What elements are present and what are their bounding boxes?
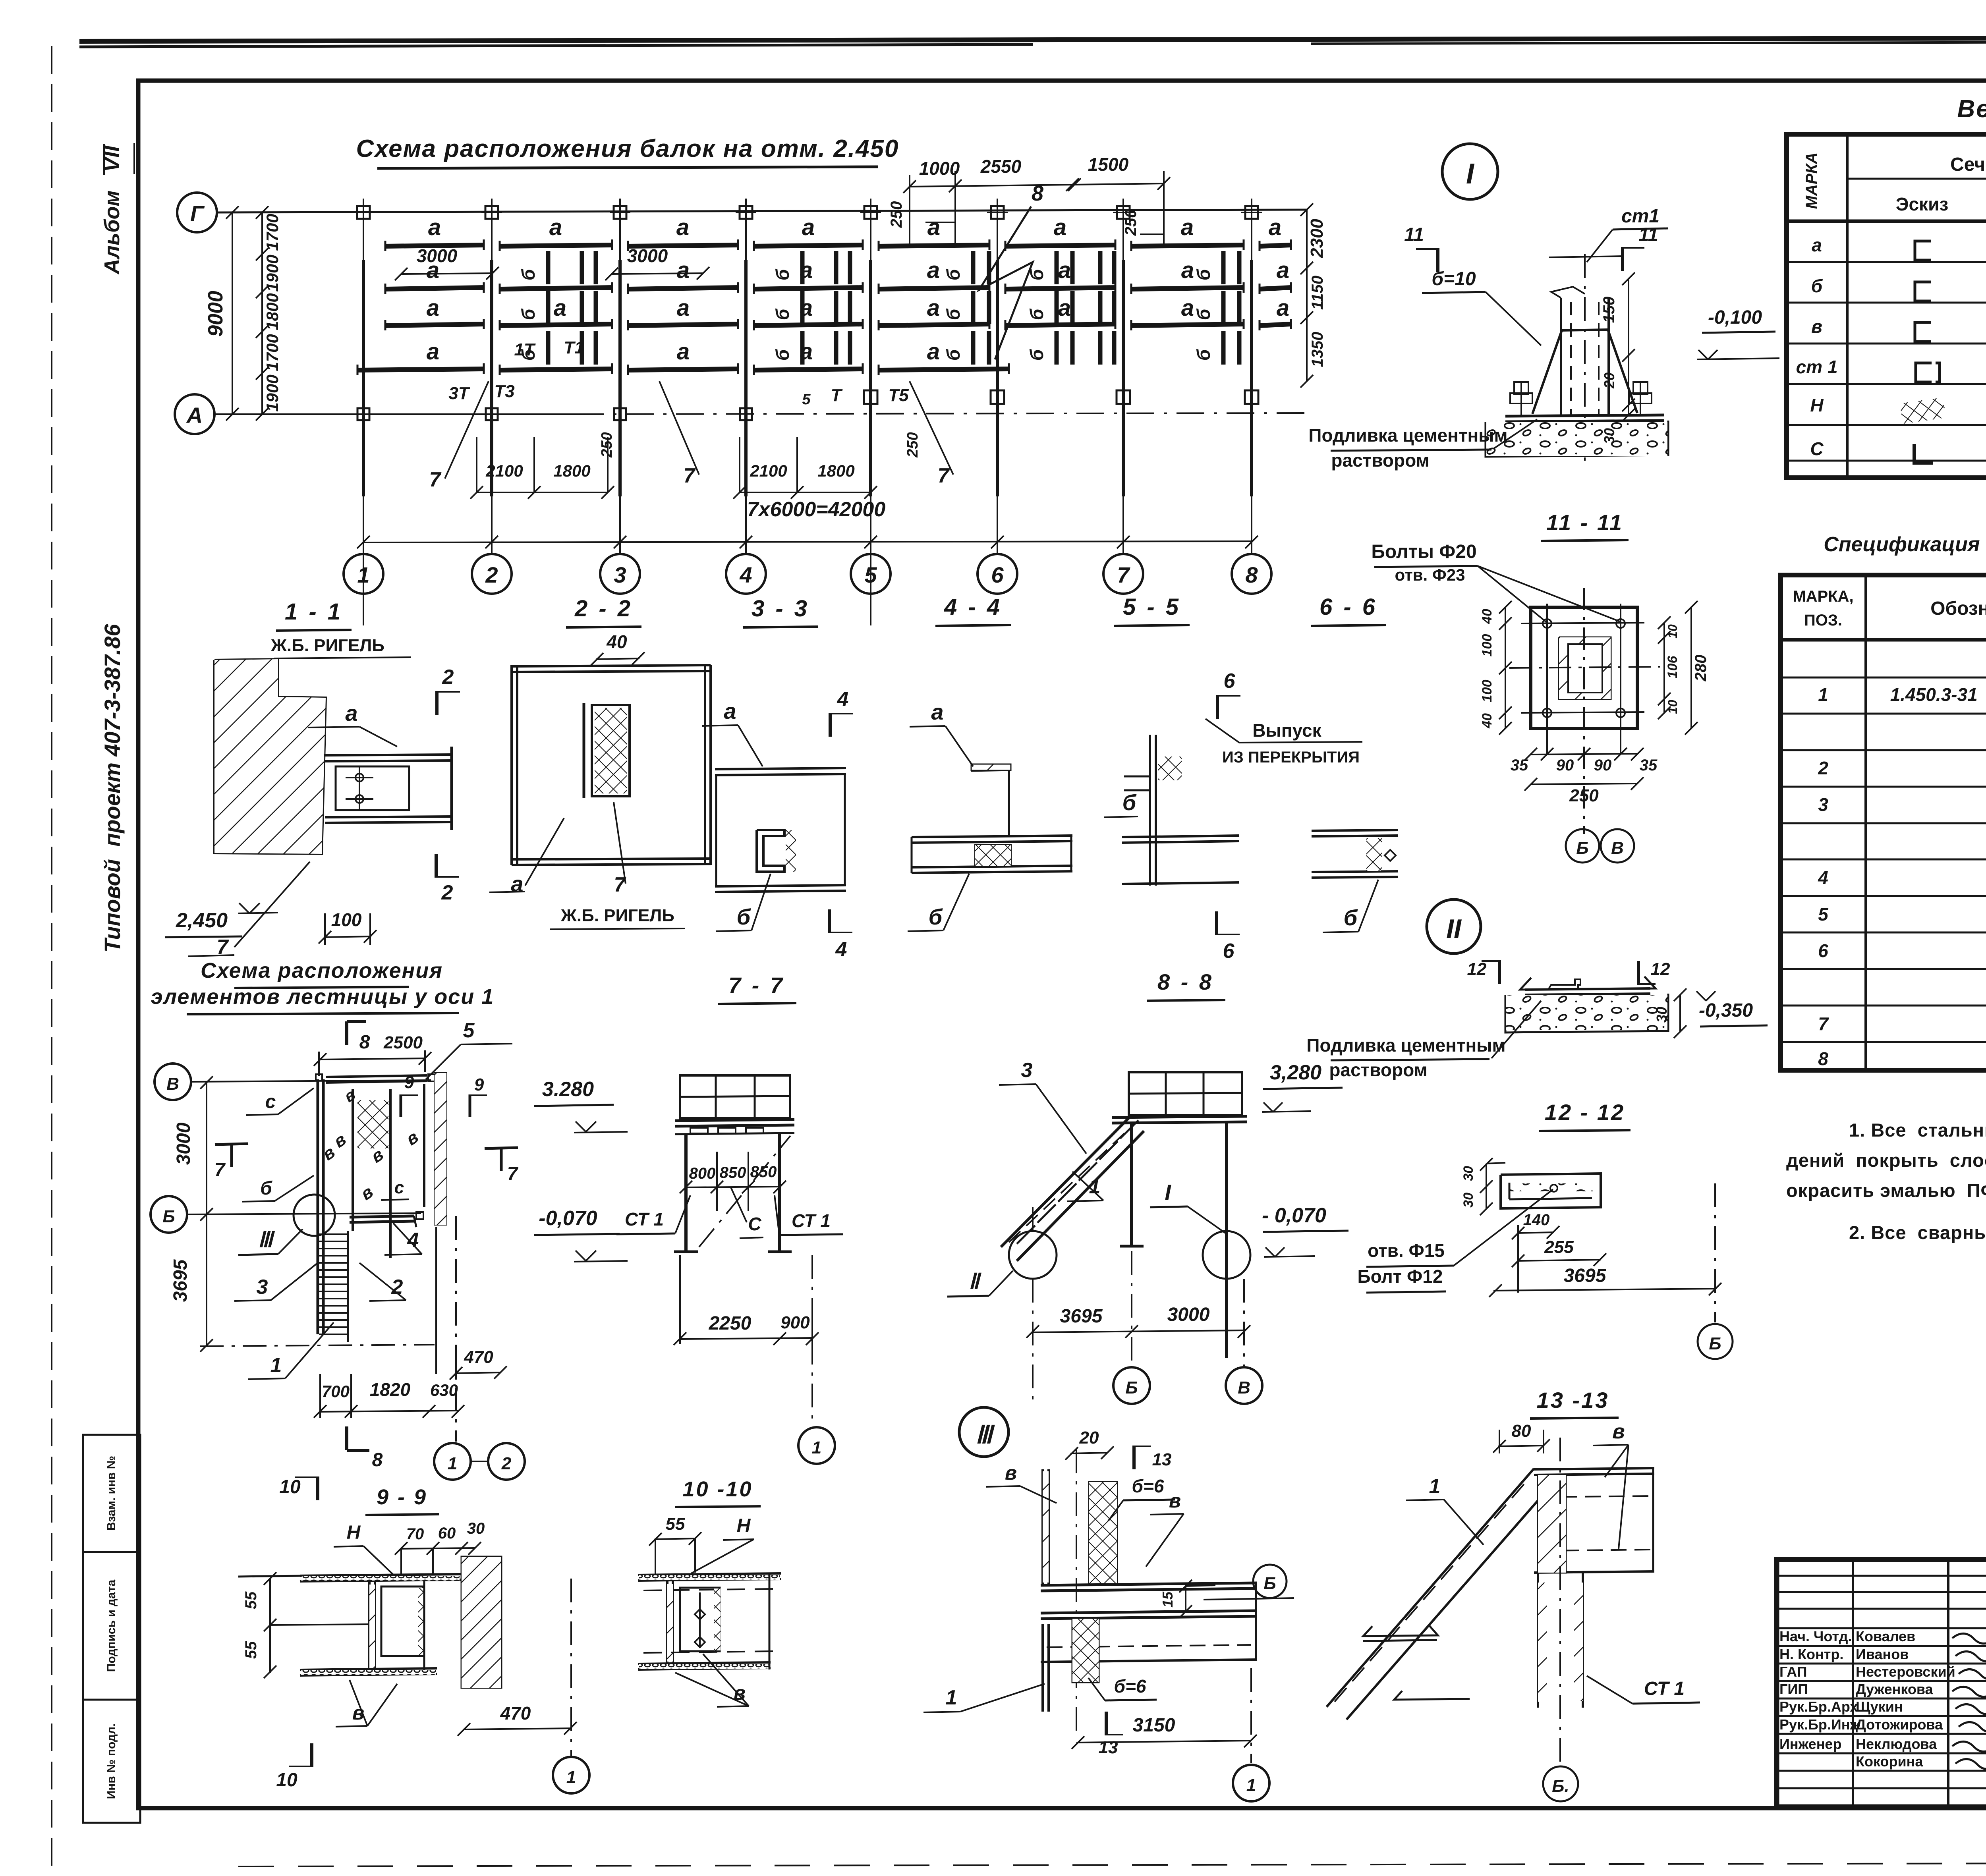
svg-text:Т1: Т1 <box>564 338 584 357</box>
svg-text:б=6: б=6 <box>1132 1476 1164 1496</box>
svg-text:-0,350: -0,350 <box>1699 1000 1753 1021</box>
svg-text:850: 850 <box>750 1163 777 1181</box>
stair bottom dims 700 1820 630 <box>320 1411 458 1412</box>
svg-text:2500: 2500 <box>383 1033 423 1052</box>
section 8-8 detail ref II <box>1009 1231 1057 1279</box>
detail 13-13 step angles <box>1363 1625 1438 1636</box>
svg-text:2: 2 <box>441 881 453 904</box>
svg-text:а: а <box>427 339 439 365</box>
svg-text:Н: Н <box>347 1522 361 1543</box>
svg-text:-0,070: -0,070 <box>539 1207 597 1230</box>
section 9-9 cut mark 10 top <box>316 1476 319 1500</box>
sheet outer border top (torn edge) <box>79 37 1986 41</box>
svg-text:2100: 2100 <box>750 461 787 480</box>
svg-text:1: 1 <box>1089 1175 1101 1198</box>
svg-text:40: 40 <box>606 631 627 652</box>
sheet outer border left <box>51 46 52 1866</box>
section 8-8 platform <box>1112 1116 1247 1117</box>
svg-text:а: а <box>802 214 815 240</box>
svg-text:13: 13 <box>1152 1450 1172 1469</box>
svg-text:а: а <box>1054 214 1066 240</box>
svg-text:б: б <box>1026 349 1047 361</box>
detail I anchor bolts <box>1510 393 1532 403</box>
svg-text:2: 2 <box>442 666 454 689</box>
svg-text:-0,100: -0,100 <box>1708 307 1762 328</box>
svg-text:С: С <box>1810 438 1824 459</box>
svg-text:250: 250 <box>904 432 921 457</box>
svg-text:140: 140 <box>1523 1211 1550 1229</box>
svg-text:5: 5 <box>463 1019 475 1042</box>
svg-text:б: б <box>943 308 964 320</box>
svg-text:раствором: раствором <box>1329 1060 1427 1080</box>
svg-text:2550: 2550 <box>980 156 1022 177</box>
section 10-10 channel <box>666 1581 668 1664</box>
svg-text:Болты Ф20: Болты Ф20 <box>1371 541 1476 562</box>
svg-text:1: 1 <box>1429 1475 1441 1498</box>
column markers on axis А <box>357 408 369 420</box>
svg-text:1: 1 <box>946 1686 957 1709</box>
svg-text:Б: Б <box>1125 1378 1138 1397</box>
svg-text:7: 7 <box>684 464 696 487</box>
svg-text:5: 5 <box>864 562 877 587</box>
svg-text:15: 15 <box>1159 1591 1176 1608</box>
svg-text:В: В <box>166 1074 179 1094</box>
svg-text:9: 9 <box>474 1075 484 1094</box>
svg-text:МАРКА: МАРКА <box>1803 152 1820 209</box>
svg-text:а: а <box>1812 235 1822 255</box>
svg-text:1: 1 <box>812 1438 821 1457</box>
stair mesh patch <box>357 1100 388 1148</box>
svg-text:МАРКА,: МАРКА, <box>1793 588 1853 605</box>
svg-text:70: 70 <box>406 1525 424 1543</box>
stair section marks 9 <box>400 1094 402 1117</box>
section 9-9 top flange <box>300 1574 461 1576</box>
svg-text:2,450: 2,450 <box>176 909 228 932</box>
svg-text:1150: 1150 <box>1309 276 1326 310</box>
svg-text:ГИП: ГИП <box>1779 1681 1808 1697</box>
detail 12-12 dims <box>1517 1232 1554 1233</box>
section 9-9 channel <box>368 1581 371 1670</box>
section 6-6 beam <box>1312 830 1398 831</box>
detail III axis circle 1 <box>1250 1668 1252 1763</box>
svg-text:б: б <box>943 349 964 361</box>
svg-text:Кокорина: Кокорина <box>1856 1753 1923 1770</box>
svg-text:б: б <box>1193 349 1214 361</box>
detail III left column <box>1041 1469 1044 1585</box>
section 4-4 angle with hatch <box>971 770 1011 770</box>
detail 13-13 axis circle B <box>1543 1766 1578 1801</box>
stair axis B <box>151 1196 187 1233</box>
svg-text:Инженер: Инженер <box>1779 1736 1841 1752</box>
detail I gussets <box>1532 330 1562 414</box>
section 8-8 legs <box>1130 1123 1133 1245</box>
svg-text:2 - 2: 2 - 2 <box>574 596 633 621</box>
plan left dim chain <box>261 212 263 414</box>
svg-text:1000: 1000 <box>919 158 960 179</box>
svg-text:40: 40 <box>1480 609 1495 624</box>
detail 12-12 plate <box>1501 1173 1601 1208</box>
svg-text:4: 4 <box>835 938 847 961</box>
svg-text:2: 2 <box>391 1276 403 1299</box>
svg-text:а: а <box>549 214 562 240</box>
svg-text:8: 8 <box>359 1032 370 1053</box>
detail 11-11 bolt holes <box>1543 619 1551 628</box>
section 8-8 axes dims <box>1033 1330 1244 1332</box>
svg-text:Дотожирова: Дотожирова <box>1856 1716 1943 1733</box>
svg-text:б: б <box>260 1178 272 1199</box>
beam row 2 <box>385 288 484 289</box>
section 9-9 wall hatch <box>462 1557 501 1688</box>
section 9-9 top dims 70 60 30 <box>401 1548 475 1549</box>
svg-text:80: 80 <box>1512 1421 1531 1441</box>
column axis lines 1-8 <box>363 199 364 542</box>
plan right dim chain <box>1306 210 1308 381</box>
svg-text:а: а <box>677 339 690 365</box>
svg-text:б: б <box>518 308 539 320</box>
svg-text:6 - 6: 6 - 6 <box>1319 594 1377 620</box>
axis Г circle <box>177 193 217 232</box>
section 9-9 dim 470 <box>463 1728 571 1729</box>
svg-text:Спецификация к схеме распол: Спецификация к схеме расположения элемен… <box>1824 533 1986 556</box>
detail III circle <box>959 1407 1008 1457</box>
svg-text:б: б <box>737 904 751 929</box>
svg-text:Б.: Б. <box>1552 1776 1569 1796</box>
svg-text:900: 900 <box>780 1313 810 1332</box>
svg-text:55: 55 <box>242 1641 260 1659</box>
svg-text:ст 1: ст 1 <box>1796 357 1838 377</box>
svg-text:11: 11 <box>1404 224 1424 245</box>
section 7-7 platform <box>675 1119 794 1121</box>
detail II plate on concrete <box>1520 977 1656 990</box>
svg-text:б=10: б=10 <box>1432 268 1476 290</box>
svg-text:Иванов: Иванов <box>1856 1646 1909 1662</box>
svg-text:Н: Н <box>1810 395 1824 415</box>
svg-text:3000: 3000 <box>1167 1304 1210 1325</box>
svg-text:1: 1 <box>1246 1776 1256 1795</box>
stair mid landing beam 4 <box>350 1216 414 1217</box>
section 9-9 cut mark 10 bottom <box>310 1743 313 1767</box>
detail 11-11 centerlines <box>1583 588 1585 834</box>
section 3-3 channel <box>757 830 784 872</box>
svg-text:1: 1 <box>357 562 369 587</box>
svg-text:Болт Ф12: Болт Ф12 <box>1358 1266 1443 1287</box>
svg-text:Сечение: Сечение <box>1950 154 1986 175</box>
svg-text:3,280: 3,280 <box>1270 1061 1321 1084</box>
svg-text:Т5: Т5 <box>888 386 909 405</box>
svg-text:2100: 2100 <box>485 461 523 480</box>
svg-text:2: 2 <box>485 562 498 587</box>
svg-text:12: 12 <box>1651 959 1670 979</box>
svg-text:СТ 1: СТ 1 <box>625 1209 664 1229</box>
detail III beams <box>1041 1583 1257 1585</box>
svg-text:470: 470 <box>464 1347 493 1367</box>
svg-text:1700: 1700 <box>263 334 282 371</box>
svg-text:55: 55 <box>666 1514 685 1534</box>
svg-text:а: а <box>1277 257 1289 283</box>
svg-text:Б: Б <box>1576 838 1588 858</box>
svg-text:3695: 3695 <box>170 1259 191 1302</box>
svg-text:1: 1 <box>1818 684 1828 705</box>
detail III dim 3150 <box>1076 1741 1251 1743</box>
svg-text:630: 630 <box>430 1381 458 1399</box>
svg-text:20: 20 <box>1601 372 1617 389</box>
svg-text:3150: 3150 <box>1133 1715 1175 1736</box>
svg-text:3Т: 3Т <box>448 384 470 403</box>
spec table grid <box>1781 575 1986 1070</box>
section 2-2 channel with mesh <box>592 705 630 796</box>
svg-text:2: 2 <box>501 1454 512 1473</box>
section 8-8 stringer <box>1001 1117 1130 1247</box>
svg-text:Инв № подл.: Инв № подл. <box>105 1724 118 1799</box>
stair roman III circle <box>294 1195 335 1236</box>
svg-text:Взам. инв №: Взам. инв № <box>105 1456 118 1531</box>
svg-text:а: а <box>1058 257 1071 283</box>
svg-text:150: 150 <box>1600 297 1618 323</box>
svg-text:100: 100 <box>331 909 362 930</box>
detail III centerline <box>1076 1449 1077 1731</box>
svg-text:б: б <box>1811 276 1823 296</box>
title block signatures <box>1952 1631 1986 1644</box>
detail III cut 13 bottom <box>1105 1712 1108 1735</box>
svg-text:35: 35 <box>1640 757 1658 774</box>
section 8-8 railing <box>1129 1072 1242 1115</box>
svg-text:12 - 12: 12 - 12 <box>1545 1100 1625 1125</box>
svg-text:отв. Ф15: отв. Ф15 <box>1368 1240 1445 1261</box>
svg-text:1820: 1820 <box>370 1379 411 1400</box>
svg-text:1. Все стальные элементы кр: 1. Все стальные элементы кроме лестнично… <box>1849 1119 1986 1141</box>
svg-text:в: в <box>1811 316 1822 337</box>
stair left dims <box>206 1082 207 1346</box>
svg-text:470: 470 <box>500 1703 531 1724</box>
svg-text:100: 100 <box>1480 634 1495 657</box>
stair treads <box>319 1233 348 1235</box>
svg-text:106: 106 <box>1665 656 1680 679</box>
svg-text:Эскиз: Эскиз <box>1896 194 1948 214</box>
svg-text:Ⅲ: Ⅲ <box>976 1421 995 1449</box>
detail 11-11 axis circles B V <box>1566 829 1599 863</box>
svg-text:Подпись и дата: Подпись и дата <box>105 1579 118 1672</box>
svg-text:с: с <box>394 1178 404 1197</box>
svg-text:Дуженкова: Дуженкова <box>1856 1681 1934 1697</box>
svg-text:- 0,070: - 0,070 <box>1262 1204 1326 1227</box>
svg-text:а: а <box>1277 295 1289 321</box>
svg-text:2300: 2300 <box>1307 219 1327 258</box>
svg-text:30: 30 <box>1461 1193 1476 1208</box>
svg-text:Н: Н <box>737 1515 751 1536</box>
svg-text:в: в <box>1169 1490 1181 1512</box>
detail 12-12 axis B <box>1714 1183 1716 1322</box>
svg-text:35: 35 <box>1511 757 1528 774</box>
svg-text:4 - 4: 4 - 4 <box>944 594 1002 620</box>
detail 12-12 left dims 30 30 <box>1486 1164 1487 1209</box>
svg-text:Альбом: Альбом <box>100 190 124 275</box>
svg-text:а: а <box>927 295 940 321</box>
svg-text:9 - 9: 9 - 9 <box>377 1485 427 1509</box>
detail 13-13 stringer <box>1327 1469 1534 1707</box>
svg-text:с: с <box>265 1091 276 1112</box>
svg-text:3000: 3000 <box>627 245 668 266</box>
svg-text:б: б <box>943 268 964 280</box>
svg-text:6: 6 <box>1818 940 1828 961</box>
svg-text:9000: 9000 <box>204 291 227 337</box>
svg-text:Типовой проект 407-3-387.86: Типовой проект 407-3-387.86 <box>100 623 125 952</box>
section 2-2 ribs <box>510 665 513 865</box>
section 9-9 left dims 55 55 <box>269 1579 271 1673</box>
stair right verticals <box>455 1216 457 1442</box>
svg-text:б: б <box>518 268 539 280</box>
section 5-5 post <box>1149 735 1151 886</box>
svg-text:3: 3 <box>614 562 626 587</box>
svg-text:11 - 11: 11 - 11 <box>1546 510 1623 535</box>
svg-text:Подливка цементным: Подливка цементным <box>1308 425 1507 446</box>
svg-text:б: б <box>1344 905 1358 930</box>
svg-text:б: б <box>1026 308 1047 320</box>
svg-text:55: 55 <box>242 1591 260 1609</box>
svg-text:10: 10 <box>1665 624 1680 639</box>
svg-text:7: 7 <box>429 468 442 491</box>
detail III cut 13 top <box>1132 1446 1136 1469</box>
svg-text:90: 90 <box>1556 757 1574 774</box>
svg-text:3: 3 <box>1021 1059 1033 1082</box>
svg-text:30: 30 <box>1461 1166 1476 1181</box>
svg-text:800: 800 <box>689 1165 716 1182</box>
svg-text:13 -13: 13 -13 <box>1537 1388 1609 1413</box>
svg-text:а: а <box>554 295 566 321</box>
section 10-10 bottom flange <box>638 1662 771 1664</box>
svg-text:Обозначение: Обозначение <box>1930 598 1986 619</box>
svg-text:3695: 3695 <box>1060 1306 1103 1327</box>
detail II dim 30 <box>1679 995 1681 1032</box>
svg-text:30: 30 <box>1654 1007 1670 1023</box>
svg-text:Г: Г <box>190 201 205 226</box>
svg-text:7 - 7: 7 - 7 <box>728 973 785 998</box>
section 1-1 beam <box>324 755 453 755</box>
detail II circle <box>1427 899 1481 953</box>
stair section marks 7 <box>230 1144 233 1167</box>
svg-text:Б: Б <box>1709 1334 1721 1353</box>
svg-text:6: 6 <box>1223 940 1235 963</box>
svg-text:ст1: ст1 <box>1621 206 1660 227</box>
svg-text:I: I <box>1466 158 1475 190</box>
section 7-7 dims 800 850 850 <box>686 1187 780 1187</box>
detail I dims right <box>1628 278 1629 415</box>
svg-text:отв. Ф23: отв. Ф23 <box>1395 566 1465 584</box>
svg-text:б=6: б=6 <box>1114 1676 1146 1697</box>
svg-text:1Т: 1Т <box>514 340 535 359</box>
svg-text:8: 8 <box>1818 1048 1828 1069</box>
svg-text:Нестеровский: Нестеровский <box>1856 1664 1955 1680</box>
svg-text:А: А <box>186 403 203 428</box>
svg-text:30: 30 <box>467 1520 485 1537</box>
svg-text:Выпуск: Выпуск <box>1252 720 1321 741</box>
svg-text:1: 1 <box>270 1354 282 1377</box>
svg-text:2. Все сварные швы h = 6мм: 2. Все сварные швы h = 6мм. <box>1849 1222 1986 1243</box>
svg-text:а: а <box>677 295 690 321</box>
plan bottom dim line <box>363 541 1252 542</box>
section 9-9 bottom flange <box>300 1668 437 1670</box>
detail 11-11 bottom dim chains <box>1531 754 1637 755</box>
svg-text:1800: 1800 <box>263 293 282 330</box>
svg-text:250: 250 <box>599 432 615 457</box>
detail III lower gusset <box>1072 1619 1099 1682</box>
svg-text:1500: 1500 <box>1088 154 1129 175</box>
svg-text:5 - 5: 5 - 5 <box>1123 594 1181 620</box>
svg-text:850: 850 <box>720 1164 746 1181</box>
svg-text:ГАП: ГАП <box>1779 1664 1807 1680</box>
svg-text:3000: 3000 <box>173 1122 194 1165</box>
detail 11-11 baseplate <box>1531 607 1637 728</box>
axis А line <box>214 413 576 415</box>
svg-text:Ведомость элементов: Ведомость элементов <box>1957 95 1986 123</box>
svg-text:в: в <box>1612 1420 1625 1443</box>
svg-text:1: 1 <box>566 1768 576 1787</box>
svg-text:60: 60 <box>438 1525 456 1542</box>
detail 11-11 right dim chain <box>1663 623 1665 713</box>
title block outer <box>1777 1559 1986 1807</box>
detail II cut marks 12 <box>1498 960 1501 984</box>
svg-text:7x6000=42000: 7x6000=42000 <box>747 498 886 521</box>
svg-text:1900: 1900 <box>263 374 282 411</box>
svg-text:а: а <box>428 214 441 240</box>
detail III axis circle B <box>1204 1599 1253 1600</box>
svg-text:1 - 1: 1 - 1 <box>285 599 343 625</box>
svg-text:а: а <box>676 214 689 240</box>
svg-text:3000: 3000 <box>417 245 458 266</box>
svg-text:Щукин: Щукин <box>1856 1698 1903 1715</box>
section 5-5 weld hatch <box>1158 757 1182 780</box>
svg-text:40: 40 <box>1480 713 1495 729</box>
svg-text:ИЗ ПЕРЕКРЫТИЯ: ИЗ ПЕРЕКРЫТИЯ <box>1222 749 1360 766</box>
svg-text:С: С <box>748 1214 761 1234</box>
svg-text:а: а <box>1181 214 1194 240</box>
svg-text:Н. Контр.: Н. Контр. <box>1779 1646 1843 1662</box>
svg-text:1700: 1700 <box>263 214 282 251</box>
svg-text:8: 8 <box>1032 181 1043 205</box>
svg-text:Т3: Т3 <box>494 382 514 401</box>
svg-text:7: 7 <box>214 1160 226 1181</box>
section 7-7 railing <box>680 1075 790 1118</box>
svg-text:б: б <box>1193 308 1214 320</box>
svg-text:6: 6 <box>991 562 1004 587</box>
cross beams b bars <box>546 251 551 284</box>
stair top rail 5 <box>326 1075 427 1077</box>
section 3-3 beam <box>715 768 846 769</box>
stair stringers vertical <box>317 1079 319 1334</box>
svg-text:Б: Б <box>162 1207 175 1226</box>
svg-text:Неклюдова: Неклюдова <box>1856 1736 1937 1752</box>
svg-text:100: 100 <box>1480 680 1495 703</box>
svg-text:В: В <box>1238 1378 1250 1397</box>
svg-text:4: 4 <box>739 562 752 587</box>
svg-text:3: 3 <box>257 1276 268 1299</box>
detail I cut marks 11 <box>1436 248 1439 272</box>
svg-text:2: 2 <box>1818 758 1828 778</box>
detail I circle <box>1442 144 1498 199</box>
svg-text:3695: 3695 <box>1564 1265 1607 1286</box>
svg-text:а: а <box>927 339 940 365</box>
stair axis V <box>155 1063 191 1100</box>
detail 11-11 column section <box>1559 637 1611 699</box>
svg-text:8: 8 <box>1245 562 1258 587</box>
svg-text:Т: Т <box>831 386 843 405</box>
svg-text:Схема расположения балок на от: Схема расположения балок на отм. 2.450 <box>356 135 899 162</box>
stair dim 2500 <box>319 1058 426 1060</box>
svg-text:10: 10 <box>1665 700 1680 714</box>
svg-text:а: а <box>1269 214 1281 240</box>
svg-text:90: 90 <box>1594 757 1612 774</box>
svg-text:8 - 8: 8 - 8 <box>1157 969 1214 994</box>
axis Г line <box>217 210 1307 212</box>
